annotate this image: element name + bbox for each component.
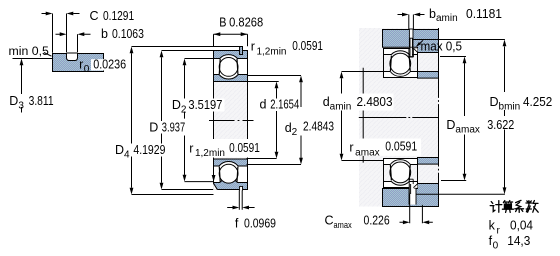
dimension d_amin <box>340 72 344 161</box>
svg-text:0,04: 0,04 <box>510 219 533 233</box>
D extension lines <box>162 51 214 190</box>
dimension d <box>275 82 279 159</box>
snap ring groove (top, white cut) <box>240 50 243 54</box>
shaft end centerline <box>438 28 440 207</box>
svg-text:3.5197: 3.5197 <box>188 98 222 112</box>
outer ring top section <box>214 51 248 59</box>
C_amax extension lines <box>410 194 423 223</box>
D_bmin top extension line <box>413 39 505 41</box>
D4 extension lines <box>132 47 240 195</box>
svg-text:B: B <box>219 16 226 30</box>
dimension D4 <box>130 47 134 195</box>
outer ring chamfer at snap ring (top right) <box>413 48 417 52</box>
calculation factors title (hand-drawn CJK) <box>490 200 538 212</box>
bearing side faces <box>214 51 248 190</box>
centerline (right fig) <box>359 117 439 119</box>
b_amin extension lines <box>409 15 414 30</box>
D3 groove-bottom extension line <box>13 58 53 60</box>
bearing faces (right fig) <box>384 49 418 188</box>
housing recess slot top <box>409 29 413 47</box>
svg-text:0.0969: 0.0969 <box>244 217 276 231</box>
ball bottom (right fig) <box>390 162 411 183</box>
D_bmin label <box>488 92 556 112</box>
housing recess slot bottom <box>409 189 416 205</box>
svg-text:0.0236: 0.0236 <box>93 57 126 71</box>
d extension lines <box>247 82 279 159</box>
dimension b_amin <box>398 7 503 24</box>
surrounding hatch background <box>359 28 439 207</box>
dimension D2 <box>183 59 187 182</box>
D4 label <box>114 143 167 160</box>
dimension B extension lines <box>214 34 248 46</box>
empty snap ring groove (bottom) <box>239 186 243 191</box>
r 1,2min bottom label <box>188 139 261 159</box>
snap ring (right fig top) <box>410 38 412 56</box>
svg-text:3.937: 3.937 <box>162 121 185 135</box>
snap ring groove walls bottom <box>409 179 413 187</box>
D_amax label <box>445 116 520 135</box>
dimension C <box>42 9 135 23</box>
ball top <box>219 58 238 77</box>
snap ring <box>240 47 243 55</box>
svg-text:0.0591: 0.0591 <box>229 141 260 155</box>
svg-text:0.0591: 0.0591 <box>385 140 417 154</box>
snap ring groove walls top <box>409 49 414 57</box>
bearing outline top section <box>384 49 418 78</box>
outer ring block <box>53 54 104 72</box>
svg-text:min 0,5: min 0,5 <box>9 44 49 58</box>
groove notch <box>67 53 78 61</box>
dimension d2 <box>299 76 303 165</box>
shaft abutment ring bottom <box>418 158 439 165</box>
outer ring bottom section <box>214 179 248 190</box>
shaft abutment ring top <box>418 72 439 79</box>
r 1,2min bottom arrowhead <box>212 175 216 182</box>
dimension B <box>214 16 264 36</box>
cage top <box>219 59 238 74</box>
housing bottom block <box>383 184 439 207</box>
cage bottom (right fig) <box>390 165 410 180</box>
d2 label <box>284 119 336 138</box>
dimension b <box>56 27 144 41</box>
svg-text:max 0,5: max 0,5 <box>421 40 463 54</box>
svg-text:14,3: 14,3 <box>507 234 530 248</box>
D2 extension lines <box>185 59 214 182</box>
dimension D3 <box>9 59 53 113</box>
max 0,5 leader arrow <box>420 40 423 43</box>
inner ring bottom section <box>214 159 248 166</box>
dimension D <box>160 51 164 190</box>
ball top (right fig) <box>390 53 411 74</box>
svg-text:d: d <box>260 98 267 112</box>
svg-text:0.1291: 0.1291 <box>103 9 134 23</box>
outer ring chamfer at snap ring (bottom right) <box>413 184 417 188</box>
min 0,5 leader <box>44 53 52 57</box>
housing top block <box>383 30 439 53</box>
D label <box>148 121 187 135</box>
bore surface (hatched) <box>214 82 247 160</box>
svg-text:b: b <box>101 27 108 41</box>
svg-text:0.0591: 0.0591 <box>292 39 323 53</box>
dimension D_amax <box>463 57 467 181</box>
dimension C extension lines <box>53 14 67 53</box>
bearing outline bottom section <box>384 159 418 188</box>
svg-text:3.622: 3.622 <box>487 118 514 132</box>
cage top (right fig) <box>390 56 410 71</box>
dimension C_amax <box>325 214 433 230</box>
svg-text:2.1654: 2.1654 <box>270 98 299 112</box>
outer ring bottom-left chamfer <box>213 183 217 190</box>
D_bmin bottom extension line <box>416 193 505 195</box>
svg-text:0.1181: 0.1181 <box>466 7 502 21</box>
r_amax label <box>348 139 422 159</box>
svg-text:0.8268: 0.8268 <box>229 16 263 30</box>
svg-text:D: D <box>149 121 158 135</box>
svg-text:2.4843: 2.4843 <box>303 119 334 133</box>
dimension D_bmin <box>503 40 507 195</box>
dimension f <box>227 206 276 231</box>
svg-text:4.1929: 4.1929 <box>133 143 165 157</box>
ball bottom <box>219 164 238 183</box>
centerline <box>209 120 254 122</box>
r0 value label <box>79 57 130 75</box>
svg-text:3.811: 3.811 <box>29 94 54 108</box>
f extension lines <box>239 190 242 209</box>
D_amax extension lines <box>440 57 466 181</box>
d2 extension lines <box>247 76 302 165</box>
svg-text:4.252: 4.252 <box>523 95 552 109</box>
auxiliary extension line <box>362 68 364 163</box>
D2 label <box>171 98 225 115</box>
snap ring (right fig bottom) <box>409 184 414 193</box>
d_amin extension lines <box>342 72 384 161</box>
svg-text:2.4803: 2.4803 <box>357 95 393 109</box>
svg-text:f: f <box>235 217 239 231</box>
d label <box>258 98 300 112</box>
svg-text:C: C <box>90 9 99 23</box>
cage bottom <box>219 167 238 182</box>
inner ring top section <box>214 75 248 82</box>
svg-text:0.1063: 0.1063 <box>112 27 144 41</box>
block top surface line <box>52 53 104 55</box>
dimension b extension line <box>77 34 79 52</box>
svg-text:0.226: 0.226 <box>364 214 390 228</box>
d_amin label <box>322 94 394 113</box>
